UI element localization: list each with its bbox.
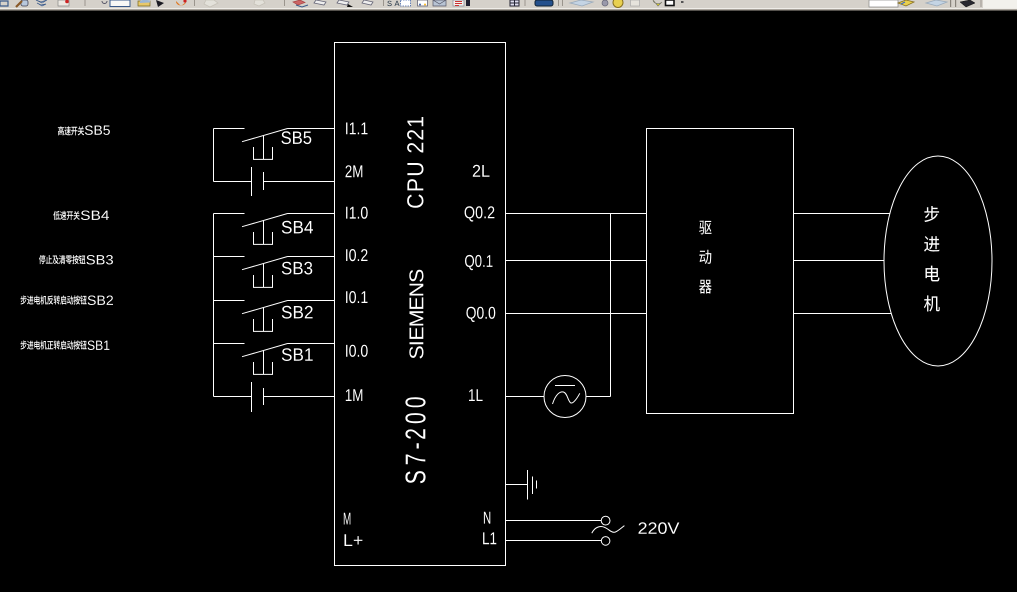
wire left bus lower loop <box>213 214 215 397</box>
label N <box>484 512 490 524</box>
label 步进电机反转启动按钮 (reverse start button) <box>21 295 87 304</box>
label 2M <box>346 165 363 177</box>
wire pulse source to vertical branch <box>586 396 611 398</box>
label I0.2 <box>346 249 367 261</box>
wire SB2 row right segment to I0.1 <box>288 300 335 302</box>
ground symbol <box>528 470 537 500</box>
wire ground stub from PLC <box>506 484 528 486</box>
label 停止及清零按钮 (stop and clear button) <box>39 255 85 264</box>
wire L1 to supply <box>506 540 602 542</box>
switch SB2 blade <box>242 301 288 314</box>
pulse source circle <box>544 376 586 418</box>
label 驱动器 (driver) vertical <box>699 221 712 294</box>
capacitor plate right 1M <box>263 388 265 405</box>
capacitor plate left 1M <box>251 382 253 412</box>
switch SB3 pushbutton bracket <box>254 275 273 287</box>
switch SB3 blade <box>242 257 288 270</box>
label I0.1 <box>346 291 367 303</box>
label CPU 221 vertical <box>407 117 423 208</box>
wire 2M row left segment <box>214 181 252 183</box>
wire 1M row right segment to PLC <box>264 396 335 398</box>
label 步进电机 (stepper motor) vertical <box>924 206 940 312</box>
wire SB4 row left segment <box>214 213 245 215</box>
wire SB5 row left segment <box>214 128 245 130</box>
label 步进电机正转启动按钮 (forward start button) <box>21 340 87 349</box>
switch SB2 pushbutton bracket <box>254 319 273 331</box>
switch SB3 actuator stem <box>263 264 265 288</box>
label SB1 left small <box>88 341 110 351</box>
PLC U1 S7-200 CPU 221 box <box>335 43 506 566</box>
wire driver to motor phase B <box>794 260 885 262</box>
wire Q0.0 output to driver <box>506 313 647 315</box>
label SB2 <box>282 306 313 319</box>
label L+ <box>345 534 363 546</box>
wire N to supply <box>506 520 602 522</box>
label SB5 left small <box>85 125 110 134</box>
label 高速开关 (high-speed switch) <box>58 126 84 135</box>
wire SB2 row left segment <box>214 300 245 302</box>
wire left bus upper loop <box>213 129 215 182</box>
supply terminal circle L1 <box>601 537 610 546</box>
breaker switch wave 220V <box>592 526 625 534</box>
switch SB4 pushbutton bracket <box>254 232 273 244</box>
pulse source overbar <box>555 385 575 387</box>
label Q0.2 <box>465 206 495 221</box>
label 2L <box>473 165 490 177</box>
switch SB4 blade <box>242 214 288 227</box>
label M <box>344 513 351 525</box>
stepper motor M1 ellipse <box>884 156 992 366</box>
capacitor plate right 2M <box>263 172 265 190</box>
capacitor plate left 2M <box>251 167 253 196</box>
label SB5 <box>281 131 311 144</box>
switch SB5 pushbutton bracket <box>254 147 273 159</box>
label I0.0 <box>346 345 368 357</box>
switch SB5 blade <box>242 129 288 142</box>
label Q0.1 <box>465 255 493 270</box>
switch SB4 actuator stem <box>263 221 265 245</box>
pulse source sine wave <box>553 392 580 404</box>
wire driver to motor phase A <box>794 213 891 215</box>
label SB4 left small <box>81 211 109 221</box>
label I1.1 <box>346 123 367 135</box>
wire vertical branch Q0.2 to pulse source <box>610 214 612 397</box>
wire driver to motor phase C <box>794 313 892 315</box>
wire SB5 row right segment to I1.1 <box>288 128 335 130</box>
wire 1L to pulse source <box>506 396 545 398</box>
switch SB1 blade <box>242 344 288 357</box>
label SB2 left small <box>88 296 113 306</box>
label Q0.0 <box>466 307 495 322</box>
label 1M <box>346 389 363 401</box>
label SB4 <box>282 221 313 234</box>
wire SB3 row left segment <box>214 256 245 258</box>
supply terminal circle N <box>601 516 610 525</box>
label 低速开关 (low-speed switch) <box>53 211 80 220</box>
wire SB1 row left segment <box>214 343 245 345</box>
switch SB5 actuator stem <box>263 136 265 160</box>
label 220V <box>639 522 680 534</box>
label SIEMENS vertical <box>409 270 423 359</box>
wire SB4 row right segment to I1.0 <box>288 213 335 215</box>
label L1 <box>483 532 496 544</box>
wire SB1 row right segment to I0.0 <box>288 343 335 345</box>
label S7-200 vertical <box>405 397 425 483</box>
label I1.0 <box>346 207 368 219</box>
label 1L <box>469 389 483 401</box>
label SB1 <box>282 348 313 361</box>
switch SB1 pushbutton bracket <box>254 362 273 374</box>
label SB3 <box>282 262 313 275</box>
label SB3 left small <box>87 255 114 265</box>
wire 2M row right segment to PLC <box>264 181 335 183</box>
wire 1M row left segment <box>214 396 252 398</box>
switch SB2 actuator stem <box>263 308 265 332</box>
switch SB1 actuator stem <box>263 351 265 375</box>
wire Q0.1 output to driver <box>506 260 647 262</box>
wire Q0.2 output to driver <box>506 213 647 215</box>
driver box U2 (drive unit) <box>647 129 794 414</box>
wire SB3 row right segment to I0.2 <box>288 256 335 258</box>
